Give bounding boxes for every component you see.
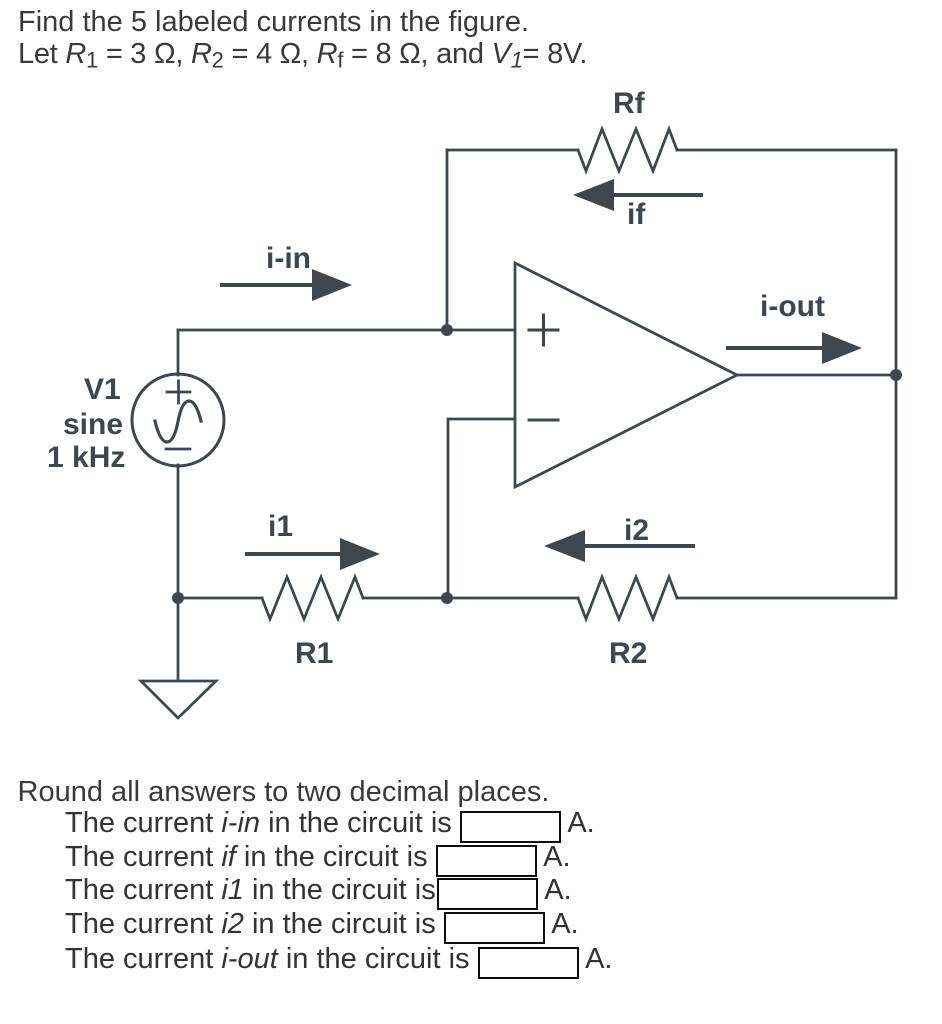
current arrow i-out (728, 332, 862, 364)
svg-text:i1: i1 (268, 510, 293, 543)
op-amp U1 body (515, 263, 737, 487)
svg-text:if: if (627, 198, 646, 231)
svg-text:sine: sine (63, 408, 123, 441)
current arrow if (573, 179, 701, 211)
answer line i1 (65, 874, 572, 910)
wire feedback left vertical (446, 150, 449, 330)
resistor Rf (578, 129, 677, 171)
svg-text:i-out: i-out (760, 290, 825, 323)
svg-text:R2: R2 (609, 637, 647, 670)
instruction round answers (18, 776, 550, 809)
wire bottom-right segment (677, 597, 896, 600)
op-amp inverting - symbol (529, 419, 558, 422)
voltage source V1 plus sign (167, 381, 190, 403)
resistor R2 (578, 577, 677, 619)
wire feedback top-right segment (677, 149, 896, 152)
wire ground stem (177, 598, 180, 681)
current arrow i-in (222, 269, 352, 301)
wire output (737, 374, 896, 377)
wire noninverting input (178, 329, 515, 332)
node noninverting input junction (441, 324, 453, 336)
svg-text:i2: i2 (624, 514, 649, 547)
wire bottom-middle segment (363, 597, 578, 600)
node output junction (890, 369, 902, 381)
heading problem statement (18, 6, 587, 70)
svg-text:V1: V1 (84, 373, 121, 406)
current arrow i2 (544, 530, 693, 562)
svg-text:Rf: Rf (613, 87, 646, 120)
wire inverting input (448, 419, 515, 598)
current arrow i1 (247, 538, 380, 570)
wire source top (177, 330, 180, 375)
wire source bottom (177, 465, 180, 598)
voltage source V1 circle (132, 374, 224, 466)
wire right vertical (895, 150, 898, 598)
svg-text:R1: R1 (295, 637, 333, 670)
answer line i-in (65, 807, 595, 843)
answer line i2 (65, 908, 579, 944)
svg-text:i-in: i-in (266, 242, 311, 275)
op-amp noninverting + symbol (529, 315, 558, 345)
voltage source V1 sine symbol (155, 401, 201, 442)
node bottom-left junction (172, 592, 184, 604)
answer line i-out (65, 943, 612, 979)
node inverting feedback junction (441, 592, 453, 604)
voltage source V1 minus sign (166, 448, 190, 451)
wire feedback top-left segment (447, 149, 578, 152)
wire bottom-left segment (178, 597, 262, 600)
ground symbol (141, 681, 216, 718)
svg-text:1 kHz: 1 kHz (47, 441, 125, 474)
answer line if (65, 841, 571, 877)
resistor R1 (262, 577, 363, 619)
